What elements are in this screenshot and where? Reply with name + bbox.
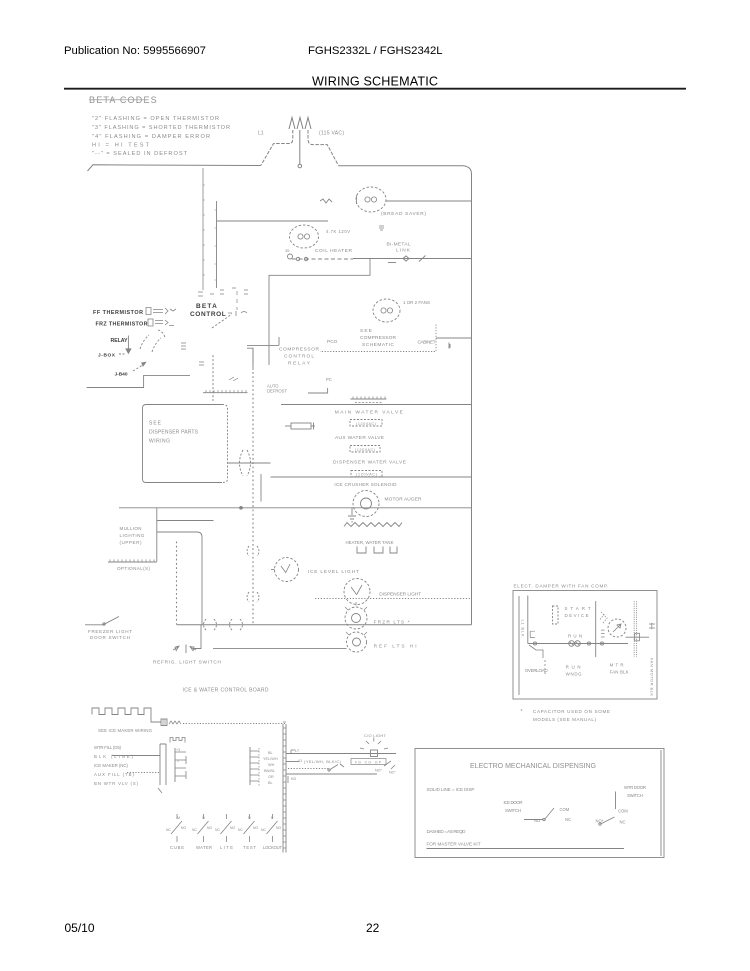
svg-text:ELECT. DAMPER WITH FAN COMP.: ELECT. DAMPER WITH FAN COMP. <box>514 584 609 589</box>
svg-text:COM: COM <box>618 809 628 814</box>
svg-text:DISPENSER PARTS: DISPENSER PARTS <box>149 430 199 436</box>
svg-text:(120VAC): (120VAC) <box>355 448 375 452</box>
svg-text:COM: COM <box>560 807 570 812</box>
svg-text:(115 VAC): (115 VAC) <box>319 131 344 137</box>
svg-text:4.7K 120V: 4.7K 120V <box>326 229 350 234</box>
svg-text:WNDG: WNDG <box>566 672 583 677</box>
svg-text:FAN BLK: FAN BLK <box>610 670 629 675</box>
svg-text:L1: L1 <box>258 131 264 137</box>
svg-text:LIGHTING: LIGHTING <box>120 533 145 538</box>
svg-text:RUN: RUN <box>566 664 581 669</box>
svg-text:"4" FLASHING = DAMPER ERROR: "4" FLASHING = DAMPER ERROR <box>92 134 210 140</box>
svg-text:NC*: NC* <box>389 771 396 775</box>
svg-text:WTR FILL (G5): WTR FILL (G5) <box>94 745 122 750</box>
svg-text:TEST: TEST <box>243 845 256 850</box>
svg-text:DISPENSER WATER VALVE: DISPENSER WATER VALVE <box>333 459 406 465</box>
svg-text:CONTROL: CONTROL <box>190 311 226 318</box>
svg-text:FF THERMISTOR: FF THERMISTOR <box>93 310 143 316</box>
svg-text:(BREAD SAVER): (BREAD SAVER) <box>381 211 426 217</box>
svg-text:J-B40: J-B40 <box>115 372 128 378</box>
svg-text:NO: NO <box>276 826 281 830</box>
svg-text:AUX FILL (TB): AUX FILL (TB) <box>94 772 135 777</box>
svg-text:HEATER, WATER TANK: HEATER, WATER TANK <box>346 540 394 545</box>
svg-text:P: P <box>271 816 274 820</box>
svg-text:WH: WH <box>268 763 275 767</box>
svg-text:NC: NC <box>261 828 266 832</box>
svg-text:BLK (LINE): BLK (LINE) <box>94 754 134 759</box>
svg-text:BN/BL: BN/BL <box>264 769 275 773</box>
svg-text:SWITCH: SWITCH <box>627 793 643 798</box>
svg-text:ICE DOOR: ICE DOOR <box>504 800 523 805</box>
svg-text:SEE: SEE <box>149 421 162 427</box>
svg-text:BL: BL <box>268 751 273 755</box>
svg-text:NO: NO <box>181 826 186 830</box>
svg-text:NC: NC <box>166 828 171 832</box>
svg-text:SWITCH: SWITCH <box>505 808 521 813</box>
svg-text:DISPENSER LIGHT: DISPENSER LIGHT <box>379 591 421 597</box>
svg-text:FREEZER LIGHT: FREEZER LIGHT <box>88 629 132 634</box>
svg-text:"3" FLASHING = SHORTED THERMIS: "3" FLASHING = SHORTED THERMISTOR <box>92 125 230 131</box>
svg-text:DEVICE: DEVICE <box>565 613 589 618</box>
svg-text:LINK: LINK <box>396 248 411 254</box>
svg-text:DASHED = AS REQD: DASHED = AS REQD <box>427 829 467 834</box>
svg-text:FAN MOTOR BLK: FAN MOTOR BLK <box>650 658 655 696</box>
svg-text:SCHEMATIC: SCHEMATIC <box>362 342 395 348</box>
svg-text:HI = HI TEST: HI = HI TEST <box>92 143 150 149</box>
svg-text:MULLION: MULLION <box>120 526 142 531</box>
svg-text:NC: NC <box>238 828 243 832</box>
svg-text:41: 41 <box>298 759 302 763</box>
svg-text:BETA: BETA <box>196 303 218 310</box>
svg-text:FOR MASTER VALVE KIT: FOR MASTER VALVE KIT <box>427 842 481 847</box>
svg-text:WATER: WATER <box>196 845 212 850</box>
svg-text:COMPRESSOR: COMPRESSOR <box>360 335 397 341</box>
svg-text:NO: NO <box>230 826 235 830</box>
svg-text:1: 1 <box>177 759 179 763</box>
svg-text:ICE MAKER (NC): ICE MAKER (NC) <box>94 763 129 768</box>
svg-text:SOLID LINE = ICE DISP: SOLID LINE = ICE DISP <box>427 787 475 792</box>
svg-text:BN WTR VLV (S): BN WTR VLV (S) <box>94 781 139 786</box>
svg-text:WTR DOOR: WTR DOOR <box>624 785 646 790</box>
svg-text:RUN: RUN <box>568 634 582 639</box>
svg-text:O: O <box>202 816 205 820</box>
svg-text:J-BOX: J-BOX <box>98 352 116 358</box>
svg-text:M: M <box>177 816 180 820</box>
svg-text:NC: NC <box>620 820 626 825</box>
svg-text:CONTROL: CONTROL <box>284 354 314 360</box>
svg-text:NO: NO <box>207 826 212 830</box>
svg-text:CABINET: CABINET <box>418 340 436 346</box>
svg-text:COMPRESSOR: COMPRESSOR <box>279 346 320 352</box>
svg-text:L1 BLK: L1 BLK <box>521 620 526 637</box>
svg-text:REFRIG. LIGHT SWITCH: REFRIG. LIGHT SWITCH <box>153 660 222 666</box>
svg-text:*: * <box>521 709 523 715</box>
svg-text:DOOR SWITCH: DOOR SWITCH <box>90 635 130 640</box>
svg-text:(YEL/WH, BLK/C): (YEL/WH, BLK/C) <box>304 759 342 764</box>
svg-text:"2" FLASHING = OPEN THERMISTOR: "2" FLASHING = OPEN THERMISTOR <box>92 116 219 122</box>
svg-text:SEE ICE MAKER WIRING: SEE ICE MAKER WIRING <box>98 728 153 733</box>
svg-text:FRZR LTS *: FRZR LTS * <box>374 620 410 626</box>
svg-text:MOTOR AUGER: MOTOR AUGER <box>385 497 423 503</box>
svg-text:FD CO OP: FD CO OP <box>355 760 382 764</box>
svg-text:WIRING: WIRING <box>149 439 170 445</box>
svg-text:05/10: 05/10 <box>65 921 95 935</box>
svg-text:RELAY: RELAY <box>288 361 311 367</box>
svg-text:BL: BL <box>268 781 273 785</box>
svg-text:NO: NO <box>253 826 258 830</box>
svg-text:(120VAC): (120VAC) <box>356 422 376 426</box>
svg-text:OPTIONAL(S): OPTIONAL(S) <box>117 566 150 571</box>
svg-text:(120VAC): (120VAC) <box>356 473 377 477</box>
svg-text:PC: PC <box>326 377 332 382</box>
svg-text:OR: OR <box>268 775 274 779</box>
svg-text:LITE: LITE <box>220 845 233 850</box>
svg-text:KD: KD <box>291 777 297 781</box>
svg-text:1 OR 2 FANS: 1 OR 2 FANS <box>403 300 430 305</box>
svg-text:CUBE: CUBE <box>170 845 184 850</box>
svg-text:REF LTS HI: REF LTS HI <box>374 644 417 650</box>
svg-text:LT: LT <box>295 749 300 753</box>
svg-text:YEL/WH: YEL/WH <box>263 757 278 761</box>
svg-text:AUX WATER VALVE: AUX WATER VALVE <box>335 435 384 441</box>
svg-text:ICE CRUSHER SOLENOID: ICE CRUSHER SOLENOID <box>334 482 397 487</box>
svg-text:"--" = SEALED IN DEFROST: "--" = SEALED IN DEFROST <box>92 151 188 157</box>
svg-text:RELAY: RELAY <box>111 338 129 344</box>
svg-text:(UPPER): (UPPER) <box>120 540 142 545</box>
svg-text:ELECTRO MECHANICAL DISPENSING: ELECTRO MECHANICAL DISPENSING <box>470 763 596 770</box>
svg-text:FRZ THERMISTOR: FRZ THERMISTOR <box>96 322 148 328</box>
svg-text:PCO: PCO <box>327 339 338 345</box>
svg-text:ICE LEVEL LIGHT: ICE LEVEL LIGHT <box>308 569 359 575</box>
svg-text:ICE & WATER CONTROL BOARD: ICE & WATER CONTROL BOARD <box>183 687 269 693</box>
svg-text:NO: NO <box>534 818 541 823</box>
svg-text:C/O LIGHT: C/O LIGHT <box>364 733 387 738</box>
svg-text:OVERLOAD: OVERLOAD <box>525 668 549 673</box>
svg-text:BI-METAL: BI-METAL <box>387 242 411 248</box>
svg-text:MODELS (SEE MANUAL): MODELS (SEE MANUAL) <box>533 717 596 722</box>
svg-text:NC: NC <box>215 828 220 832</box>
svg-text:+3: +3 <box>176 748 180 752</box>
svg-text:CAPACITOR USED ON SOME: CAPACITOR USED ON SOME <box>533 709 610 714</box>
svg-text:Publication No: 5995566907: Publication No: 5995566907 <box>64 45 206 57</box>
svg-text:NC: NC <box>192 828 197 832</box>
svg-text:22: 22 <box>366 921 380 935</box>
svg-text:NO*: NO* <box>596 819 604 824</box>
svg-text:35: 35 <box>285 248 290 253</box>
svg-text:WIRING SCHEMATIC: WIRING SCHEMATIC <box>312 75 438 89</box>
svg-text:N: N <box>248 816 251 820</box>
svg-text:MTR: MTR <box>610 663 624 668</box>
svg-text:LOCKOUT: LOCKOUT <box>263 845 282 850</box>
svg-text:NO*: NO* <box>375 769 382 773</box>
svg-text:MAIN WATER VALVE: MAIN WATER VALVE <box>335 409 403 415</box>
svg-text:COIL HEATER: COIL HEATER <box>315 248 353 254</box>
svg-text:START: START <box>565 606 591 611</box>
svg-text:DEFROST: DEFROST <box>267 389 287 394</box>
svg-text:NC: NC <box>565 817 571 822</box>
svg-text:SEE: SEE <box>360 328 372 334</box>
svg-text:FGHS2332L / FGHS2342L: FGHS2332L / FGHS2342L <box>308 45 443 57</box>
